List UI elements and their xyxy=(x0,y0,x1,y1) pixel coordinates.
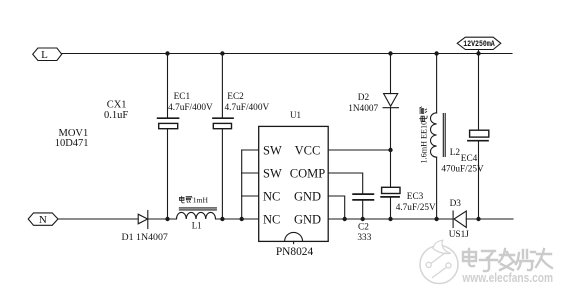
wire SW bus vertical xyxy=(241,150,243,219)
node top rail / D2 xyxy=(388,51,392,55)
svg-text:NC: NC xyxy=(263,212,280,226)
svg-text:US1J: US1J xyxy=(449,230,470,240)
wire GND2 pin along bottom rail to D3 xyxy=(328,218,453,220)
svg-text:470uF/25V: 470uF/25V xyxy=(441,164,484,174)
wire L1 to IC left pin row xyxy=(216,218,259,220)
wire COMP pin to C2 xyxy=(328,173,363,194)
wire top rail L to right end xyxy=(62,53,512,55)
wire bus stub pin SW2 xyxy=(242,172,259,174)
node top rail / EC4 output xyxy=(476,51,480,55)
node bottom rail / SW bus xyxy=(240,217,244,221)
svg-text:www.elecfans.com: www.elecfans.com xyxy=(462,270,553,285)
svg-text:NC: NC xyxy=(263,189,280,203)
diode D3 US1J xyxy=(449,199,470,240)
diode D2 1N4007 xyxy=(348,54,398,151)
inductor L1 1mH xyxy=(177,195,217,230)
watermark logo elecfans xyxy=(420,240,458,283)
svg-text:1N4007: 1N4007 xyxy=(348,104,378,114)
label dian-gan glyphs rotated xyxy=(420,107,427,121)
watermark text dianzifashaoyou xyxy=(463,249,552,271)
wire output connector stem xyxy=(478,50,480,54)
node bottom rail / C2 xyxy=(361,217,365,221)
svg-text:L1: L1 xyxy=(192,221,202,231)
wire N to D1 anode xyxy=(58,218,138,220)
varistor MOV1 label xyxy=(55,128,89,149)
node top rail / EC1 xyxy=(165,51,169,55)
capacitor EC1 4.7uF/400V xyxy=(158,54,213,220)
port 12V250mA output connector xyxy=(457,37,501,49)
node bottom rail / EC2 xyxy=(220,217,224,221)
wire D1 cathode to L1 xyxy=(148,218,177,220)
wire D3 anode to right end xyxy=(466,218,513,220)
svg-text:N: N xyxy=(39,214,47,226)
node bottom rail / EC1 xyxy=(165,217,169,221)
svg-text:D1 1N4007: D1 1N4007 xyxy=(122,232,168,243)
svg-text:4.7uF/400V: 4.7uF/400V xyxy=(168,103,213,113)
op-amp U1 PN8024 IC body xyxy=(259,110,329,258)
svg-text:D3: D3 xyxy=(450,199,462,209)
svg-text:1.6mH EE10: 1.6mH EE10 xyxy=(419,121,428,164)
label dian-gan 1mH glyphs xyxy=(179,196,192,203)
svg-text:U1: U1 xyxy=(290,110,301,120)
svg-text:COMP: COMP xyxy=(290,166,325,180)
wire bus stub pin SW1 xyxy=(242,149,259,151)
svg-text:SW: SW xyxy=(263,166,282,180)
svg-text:GND: GND xyxy=(294,189,321,203)
wire GND1 pin down to rail xyxy=(328,196,345,219)
port N xyxy=(28,213,58,226)
wire VCC pin to D2 node xyxy=(328,149,390,151)
svg-text:SW: SW xyxy=(263,143,282,157)
svg-text:0.1uF: 0.1uF xyxy=(104,110,128,121)
node bottom rail / EC3 xyxy=(388,217,392,221)
svg-text:GND: GND xyxy=(294,212,321,226)
inductor L2 1.6mH EE10 xyxy=(419,54,460,220)
svg-text:VCC: VCC xyxy=(295,143,321,157)
svg-text:1mH: 1mH xyxy=(193,195,209,204)
capacitor EC4 470uF/25V xyxy=(441,54,488,220)
svg-text:333: 333 xyxy=(357,233,371,243)
svg-text:12V250mA: 12V250mA xyxy=(463,39,495,49)
capacitor CX1 label xyxy=(104,99,128,121)
node bottom rail / L2 D3 xyxy=(434,217,438,221)
svg-text:EC4: EC4 xyxy=(461,154,478,164)
node VCC / D2 / EC3 xyxy=(388,148,392,152)
node bottom rail / EC4 output xyxy=(476,217,480,221)
svg-text:CX1: CX1 xyxy=(107,99,127,110)
svg-text:4.7uF/25V: 4.7uF/25V xyxy=(396,203,436,213)
svg-text:4.7uF/400V: 4.7uF/400V xyxy=(225,103,270,113)
svg-text:D2: D2 xyxy=(358,93,370,103)
capacitor EC3 4.7uF/25V xyxy=(381,150,436,219)
wire bus stub pin NC1 xyxy=(242,195,259,197)
node top rail / L2 xyxy=(434,51,438,55)
node top rail / EC2 xyxy=(220,51,224,55)
svg-text:EC1: EC1 xyxy=(174,92,191,102)
svg-text:EC2: EC2 xyxy=(227,92,244,102)
watermark text www.elecfans.com xyxy=(462,270,553,285)
port L xyxy=(33,48,62,61)
capacitor C2 333 xyxy=(353,194,373,243)
svg-text:L: L xyxy=(41,49,48,61)
diode D1 1N4007 xyxy=(122,211,168,244)
svg-text:L2: L2 xyxy=(450,148,461,158)
svg-text:C2: C2 xyxy=(358,223,369,233)
node bottom rail / GND1 xyxy=(343,217,347,221)
svg-text:PN8024: PN8024 xyxy=(276,246,314,258)
svg-text:10D471: 10D471 xyxy=(55,138,89,149)
svg-text:EC3: EC3 xyxy=(407,192,424,202)
capacitor EC2 4.7uF/400V xyxy=(213,54,269,220)
